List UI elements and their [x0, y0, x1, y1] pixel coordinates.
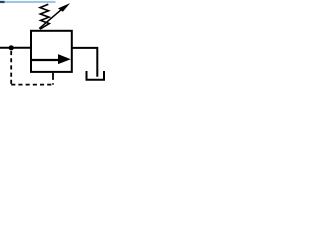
- wire W1 blue top (dark segment): [0, 1, 5, 3]
- adjustment arrow head: [58, 3, 70, 12]
- wire outlet A: [72, 48, 98, 77]
- wire inlet P: [0, 47, 31, 49]
- pilot line dashed horizontal bottom: [11, 84, 53, 86]
- adjustment arrow shaft: [39, 9, 61, 28]
- flow arrow head inside valve: [58, 54, 71, 64]
- flow arrow shaft inside valve: [32, 59, 60, 61]
- node J1 (junction dot): [9, 45, 14, 50]
- pilot line dashed vertical left: [10, 51, 12, 85]
- spring S1: [40, 4, 49, 29]
- valve body V1 (square envelope): [31, 31, 72, 72]
- wire W1 blue top (light segment): [5, 1, 56, 3]
- pilot line dashed vertical right (drain stub): [52, 73, 54, 85]
- tank T1: [87, 71, 105, 80]
